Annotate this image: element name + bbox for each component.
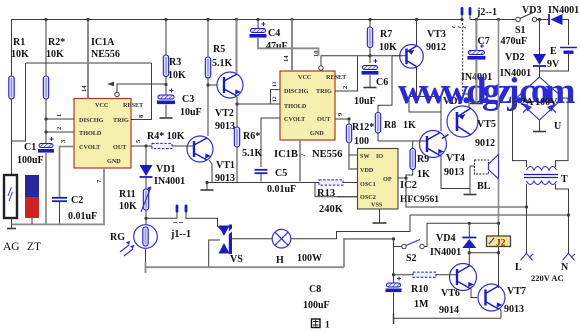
resistor R7 10K (367, 27, 372, 48)
svg-text:1K: 1K (403, 120, 416, 131)
wire W2 to N (410, 214, 569, 216)
svg-text:BL: BL (477, 181, 491, 192)
svg-text:ZT: ZT (27, 241, 41, 253)
node junction VT2 collector rail (235, 18, 238, 21)
svg-text:9014: 9014 (439, 305, 459, 316)
svg-text:R12*: R12* (352, 122, 374, 133)
wire RESET IC1B net dotted (321, 56, 406, 66)
wire R13 box outline (315, 183, 358, 197)
wire C4 bottom to reset net (258, 38, 319, 56)
pin 7 GND IC1A down (59, 168, 104, 224)
node junction R5 on rail (206, 18, 209, 21)
wire R2 column (45, 20, 47, 77)
svg-text:1M: 1M (414, 299, 429, 310)
svg-text:SW: SW (360, 153, 370, 160)
wire bottom right rail (394, 317, 502, 319)
wire R12 top (348, 119, 350, 124)
switch S1 (516, 17, 520, 21)
svg-text:IO: IO (376, 153, 383, 160)
wire VT3 emitter up (416, 20, 418, 47)
resistor R11 10K variable (143, 189, 148, 210)
photoresistor RG (134, 225, 158, 249)
triac VS (219, 226, 230, 237)
svg-text:8: 8 (138, 114, 145, 118)
pin RESET circle IC1B (319, 66, 323, 70)
wire BL left to ground bar (470, 166, 475, 194)
pin 12 THOLD IC1B (271, 103, 281, 105)
svg-text:100uF: 100uF (17, 155, 44, 166)
wire C3 bottom stub (165, 105, 167, 118)
wire VT2 emitter to IC1B inputs (237, 103, 271, 105)
svg-text:7: 7 (96, 179, 103, 183)
pin 13 DISCHG IC1B (271, 89, 281, 91)
svg-text:R13: R13 (317, 188, 335, 199)
wire C2 bottom (59, 202, 61, 224)
svg-text:THOLD: THOLD (79, 130, 102, 137)
wire secondary left (526, 184, 528, 207)
wire relay feed W3 (427, 222, 499, 224)
svg-text:VD1: VD1 (156, 164, 175, 175)
wire R6 bottom (236, 147, 238, 183)
wire secondary right (556, 184, 569, 215)
terminal L (521, 253, 534, 260)
wire triac MT2 to lamp (232, 238, 272, 240)
svg-text:VD3: VD3 (522, 5, 541, 16)
pin 14 VCC IC1B (291, 20, 293, 72)
lamp H 100W (272, 229, 291, 248)
diode VD1 IN4001 (145, 146, 147, 165)
svg-text:47uF: 47uF (266, 41, 288, 52)
wire VT2 base (208, 84, 217, 86)
wire C4 top (257, 20, 259, 29)
op-amp U2 IC1B body (280, 71, 335, 140)
svg-text:C4: C4 (268, 28, 280, 39)
resistor R13 240K (319, 180, 343, 185)
diode VD3 IN4001 (548, 14, 550, 25)
svg-text:1: 1 (56, 114, 63, 117)
svg-text:OSC1: OSC1 (360, 181, 376, 188)
svg-text:E: E (550, 46, 557, 57)
svg-text:VS: VS (230, 254, 243, 265)
svg-text:R8: R8 (384, 120, 396, 131)
resistor R9 1K (410, 149, 415, 170)
transistor VT4 9013 (420, 131, 447, 158)
svg-text:VT5: VT5 (477, 119, 496, 130)
svg-text:R6*: R6* (243, 131, 260, 142)
wire C8 bottom (393, 293, 395, 319)
svg-text:1: 1 (325, 321, 330, 331)
svg-text:VT6: VT6 (441, 288, 460, 299)
svg-text:RESET: RESET (123, 102, 144, 109)
bridge rectifier U 2A 100V (516, 77, 563, 120)
svg-text:470uF: 470uF (501, 36, 528, 47)
svg-text:C8: C8 (309, 284, 321, 295)
svg-text:J2: J2 (496, 239, 506, 249)
op-amp U1 IC1A body (74, 99, 131, 169)
svg-text:VCC: VCC (298, 74, 311, 81)
svg-text:VSS: VSS (371, 202, 383, 209)
svg-text:RESET: RESET (326, 74, 347, 81)
transformer T (527, 167, 557, 171)
svg-text:10uF: 10uF (180, 107, 202, 118)
wire R9 top to VT4 base (413, 141, 422, 149)
svg-text:5.1K: 5.1K (212, 58, 233, 69)
svg-text:VCC: VCC (95, 102, 108, 109)
svg-text:R4* 10K: R4* 10K (147, 131, 185, 142)
wire VT5 collector link to VT4 (442, 135, 449, 139)
wire gnd line to R13 (315, 182, 319, 184)
pin 3 CVOLT wire (60, 147, 75, 198)
svg-text:R2*: R2* (48, 37, 65, 48)
wire RG junction to connector j1-1 (146, 217, 177, 219)
wire L feed down (526, 207, 528, 253)
pin 2 THOLD wire (46, 131, 74, 133)
svg-text:VDD: VDD (360, 167, 374, 174)
svg-text:14: 14 (81, 85, 88, 92)
capacitor C1 100uF (39, 144, 53, 148)
svg-text:VT4: VT4 (446, 153, 465, 164)
svg-text:C6: C6 (376, 77, 388, 88)
capacitor C2 0.01uF (52, 197, 67, 199)
svg-text:R3: R3 (169, 57, 181, 68)
svg-text:CVOLT: CVOLT (79, 144, 101, 151)
svg-text:VT1: VT1 (216, 160, 235, 171)
connector j2-1 (461, 15, 463, 20)
wire ZT bottom (31, 218, 33, 224)
svg-text:H: H (276, 255, 284, 266)
relay J2 (487, 236, 511, 247)
capacitor C7 470uF (468, 51, 484, 55)
wire VD4-J2 tie (469, 252, 498, 254)
wire R8 bottom join base (378, 140, 413, 142)
svg-text:TRIG: TRIG (316, 88, 332, 95)
wire C8 top (393, 275, 395, 283)
svg-text:9013: 9013 (444, 167, 464, 178)
wire S1 to VD3 (537, 19, 549, 21)
svg-text:9V: 9V (547, 59, 560, 70)
capacitor C4 47uF (251, 29, 266, 33)
svg-text:2: 2 (342, 86, 349, 89)
svg-text:VD2: VD2 (505, 52, 524, 63)
wire RESET net IC1A (117, 84, 166, 92)
wire VT7 collector up to J2 (498, 253, 500, 288)
svg-text:9: 9 (337, 112, 344, 116)
svg-text:OP: OP (383, 176, 392, 183)
node junction C4 rail (256, 18, 259, 21)
svg-text:NE556: NE556 (91, 49, 120, 60)
wire VT4 base (422, 140, 427, 142)
resistor R12* 100 (346, 124, 351, 143)
svg-text:DISCHG: DISCHG (79, 117, 104, 124)
resistor R4* horizontal (152, 143, 172, 148)
svg-text:5.1K: 5.1K (242, 148, 263, 159)
wire R12 bottom to IC2 SW VDD (349, 143, 358, 170)
wire VT3 base (392, 55, 401, 57)
wire R3 top (165, 20, 167, 56)
chip IC2 HFC9561 body (358, 149, 399, 210)
pin 9 OUT IC1B (335, 118, 349, 120)
svg-text:C1: C1 (24, 142, 36, 153)
pin 14 VCC IC1A (87, 20, 89, 99)
wire R9 bottom to OP node (406, 170, 413, 179)
diode VD5 box (409, 97, 441, 113)
transistor VT3 9012 (400, 45, 424, 69)
svg-text:j1--1: j1--1 (170, 229, 191, 240)
wire bridge frame left (513, 98, 527, 167)
svg-text:9012: 9012 (475, 138, 495, 149)
svg-text:CVOLT: CVOLT (284, 116, 306, 123)
wire node-A horizontal y63 (26, 62, 152, 64)
pin OSC2 IC2 wire (337, 196, 358, 198)
pin 2 TRIG IC1B up to reset net (335, 56, 358, 91)
node junction R3 on rail (164, 18, 167, 21)
svg-text:9013: 9013 (215, 121, 235, 132)
wire VD2 to bridge top (539, 67, 541, 79)
node junction R7 rail (368, 18, 371, 21)
wire C7 bottom (475, 60, 477, 103)
capacitor C8 100uF (387, 283, 401, 287)
svg-text:N: N (561, 262, 569, 273)
svg-text:220V AC: 220V AC (531, 273, 564, 283)
terminal N (563, 253, 576, 260)
wire bridge bottom stub (539, 120, 541, 131)
pin RESET circle IC1A (115, 92, 119, 96)
svg-text:IN4001: IN4001 (430, 247, 461, 258)
svg-text:OUT: OUT (113, 144, 127, 151)
svg-text:C7: C7 (478, 36, 490, 47)
diode VD4 IN4001 (468, 223, 470, 237)
wire long vertical from rail to speaker (498, 20, 500, 156)
wire R5 bottom to VT2 base and VT1 collector (207, 78, 209, 136)
svg-text:R11: R11 (119, 189, 136, 200)
pin CVOLT IC1B to C5 (261, 118, 280, 167)
svg-text:100uF: 100uF (303, 300, 330, 311)
svg-text:RG: RG (110, 232, 125, 243)
svg-text:10K: 10K (168, 70, 186, 81)
node junction C7 rail (475, 18, 478, 21)
wire top-rail right segment after connector j2-1 (470, 19, 516, 21)
wire R11 bottom junction (145, 210, 147, 225)
svg-text:IC1A: IC1A (91, 37, 115, 48)
svg-text:L: L (515, 262, 522, 273)
svg-text:GND: GND (107, 158, 121, 165)
wire node-A drop to R1 line (12, 63, 26, 141)
wire triac gate (209, 240, 220, 267)
resistor R8 1K (375, 113, 380, 134)
transistor VT1 9013 (187, 136, 213, 162)
wire BL right down to relay line (498, 179, 500, 223)
svg-text:C3: C3 (182, 94, 194, 105)
wire DISCHG-THOLD tie (270, 90, 272, 104)
capacitor C5 0.01uF (255, 169, 268, 171)
battery E 9V (560, 47, 577, 49)
pin OP IC2 wire to transformer (398, 178, 527, 207)
svg-text:0.01uF: 0.01uF (68, 211, 97, 222)
wire VD1 to R11 (145, 177, 147, 189)
wire lamp right step (291, 215, 410, 239)
resistor R3 (163, 55, 168, 77)
top supply rail (11, 19, 462, 21)
switch S2 (402, 244, 406, 248)
wire R8 top to VT3 base net (378, 56, 392, 113)
svg-text:GND: GND (310, 130, 324, 137)
wire R3 bottom junction (165, 77, 167, 96)
node junction VT3 emitter rail (415, 18, 418, 21)
wire VT2 emitter node (236, 97, 238, 127)
wire S2 column (393, 239, 395, 275)
svg-text:VT3: VT3 (427, 29, 446, 40)
wire AG bottom (11, 218, 13, 224)
wire VT4 emitter down (441, 154, 470, 189)
capacitor C3 10uF (158, 95, 174, 99)
svg-text:OUT: OUT (317, 116, 331, 123)
wire VT5 emitter up to j2-1 dotted (463, 94, 469, 107)
wire VD4 bottom (468, 248, 470, 253)
wire gnd line VT1-R6-C5 (207, 182, 315, 184)
svg-text:VT7: VT7 (507, 286, 526, 297)
wire mid ground rail (146, 266, 345, 268)
diode VD2 IN4001 (539, 20, 541, 55)
wire R7 bottom to net (369, 48, 371, 64)
svg-text:THOLD: THOLD (284, 103, 307, 110)
svg-text:IN4001: IN4001 (500, 68, 531, 79)
wire C1 bottom (45, 153, 47, 224)
wire ground bus left (12, 223, 61, 225)
wire TRIG IC1A to reset net (131, 63, 152, 120)
speaker BL (475, 160, 489, 174)
wire VT2 collector (236, 20, 238, 74)
svg-text:10K: 10K (11, 49, 29, 60)
svg-text:10K: 10K (379, 42, 397, 53)
transistor VT6 9014 (450, 264, 477, 291)
svg-text:IC1B: IC1B (274, 149, 298, 160)
figure caption tu-1 (312, 319, 321, 328)
svg-text:10K: 10K (46, 49, 64, 60)
svg-text:DISCHG: DISCHG (284, 88, 309, 95)
svg-text:2: 2 (56, 127, 63, 130)
svg-text:IN4001: IN4001 (154, 176, 185, 187)
pin 7 GND IC1B down to gnd line (299, 140, 301, 182)
resistor R5 (205, 57, 210, 78)
wire VT7 emitter down (500, 308, 502, 318)
svg-text:10K: 10K (119, 201, 137, 212)
svg-text:C2: C2 (71, 195, 83, 206)
sensor ZT block (25, 175, 39, 197)
wire S2 right up (424, 223, 427, 246)
svg-text:OSC2: OSC2 (360, 194, 376, 201)
svg-text:j2--1: j2--1 (476, 7, 497, 18)
svg-text:100: 100 (354, 136, 369, 147)
wire C6 bottom stub (369, 75, 371, 87)
wire R10 to VT6 base (436, 274, 456, 276)
wire VT6 collector up (468, 253, 470, 266)
svg-text:9013: 9013 (504, 304, 524, 315)
svg-text:U: U (554, 121, 561, 132)
svg-text:14: 14 (283, 55, 290, 62)
svg-text:IC2: IC2 (400, 180, 417, 191)
svg-text:R5: R5 (213, 44, 225, 55)
svg-text:VD4: VD4 (436, 233, 455, 244)
wire mid rail up-over to L (344, 239, 394, 267)
connector j1-1 (176, 212, 178, 218)
sensor AG box (4, 175, 17, 218)
wire R10 line (394, 274, 414, 276)
wire C7 top (475, 20, 477, 51)
svg-text:13: 13 (272, 81, 278, 87)
wire VD3 to battery (563, 20, 569, 46)
arrow tick on reset wire (107, 82, 114, 86)
svg-text:IN4001: IN4001 (548, 5, 579, 16)
wire R4 to VT1 base (172, 145, 194, 147)
wire RG bottom (145, 248, 147, 267)
wire J2 bottom (498, 247, 500, 253)
svg-text:T: T (561, 174, 568, 185)
wire S2 left to column (394, 246, 403, 248)
transistor VT7 9013 (478, 284, 505, 311)
svg-text:R10: R10 (411, 284, 428, 295)
svg-text:R1: R1 (13, 37, 25, 48)
svg-text:0.01uF: 0.01uF (267, 184, 296, 195)
node VD1 junction (144, 144, 147, 147)
wire VT1 emitter ground stub (205, 181, 208, 184)
resistor R6* (234, 127, 239, 147)
pin 5 OUT IC1A (131, 145, 152, 147)
svg-text:S1: S1 (515, 25, 526, 36)
resistor R1 (9, 76, 14, 99)
wire R5 top (207, 20, 209, 58)
pin 1 DISCHG wire (46, 118, 74, 120)
svg-text:AG: AG (3, 241, 20, 253)
svg-text:C5: C5 (275, 168, 287, 179)
svg-text:5: 5 (135, 139, 142, 143)
svg-text:NE556: NE556 (312, 149, 342, 160)
svg-text:S2: S2 (406, 253, 417, 264)
capacitor C6 10uF (363, 66, 378, 70)
wire R1 bottom to AG (11, 99, 13, 174)
svg-text:R7: R7 (380, 29, 392, 40)
resistor R10 1M (413, 272, 436, 277)
wire bridge frame right (556, 98, 569, 167)
wire C5 bottom (260, 174, 262, 182)
svg-text:100W: 100W (297, 253, 322, 264)
svg-text:9012: 9012 (426, 42, 446, 53)
wire j2-1 dotted down (462, 23, 464, 94)
svg-text:3: 3 (60, 139, 67, 143)
svg-text:1K: 1K (417, 169, 430, 180)
wire VT3 collector down (416, 67, 418, 97)
svg-text:10uF: 10uF (354, 96, 376, 107)
svg-text:12: 12 (272, 96, 278, 102)
transistor VT5 9012 (447, 106, 478, 137)
node junction long right vertical on rail (497, 18, 500, 21)
svg-text:TRIG: TRIG (113, 117, 129, 124)
pin VSS IC2 stub (379, 209, 381, 223)
wire j1-1 to triac (186, 212, 223, 231)
transistor VT2 9013 (217, 72, 243, 98)
wire battery bottom (540, 54, 569, 71)
wire R7 top (369, 20, 371, 28)
wire R1 top (11, 20, 13, 77)
svg-text:VT2: VT2 (215, 108, 234, 119)
node junction R2 on rail (44, 18, 47, 21)
wire VT6 emitter to VT7 base (471, 287, 477, 298)
wire VT1 emitter down (209, 160, 212, 183)
resistor R2* (43, 76, 48, 99)
wire R8 bottom (377, 133, 379, 141)
svg-text:240K: 240K (319, 204, 344, 215)
node junction IC1B VCC rail (290, 18, 293, 21)
